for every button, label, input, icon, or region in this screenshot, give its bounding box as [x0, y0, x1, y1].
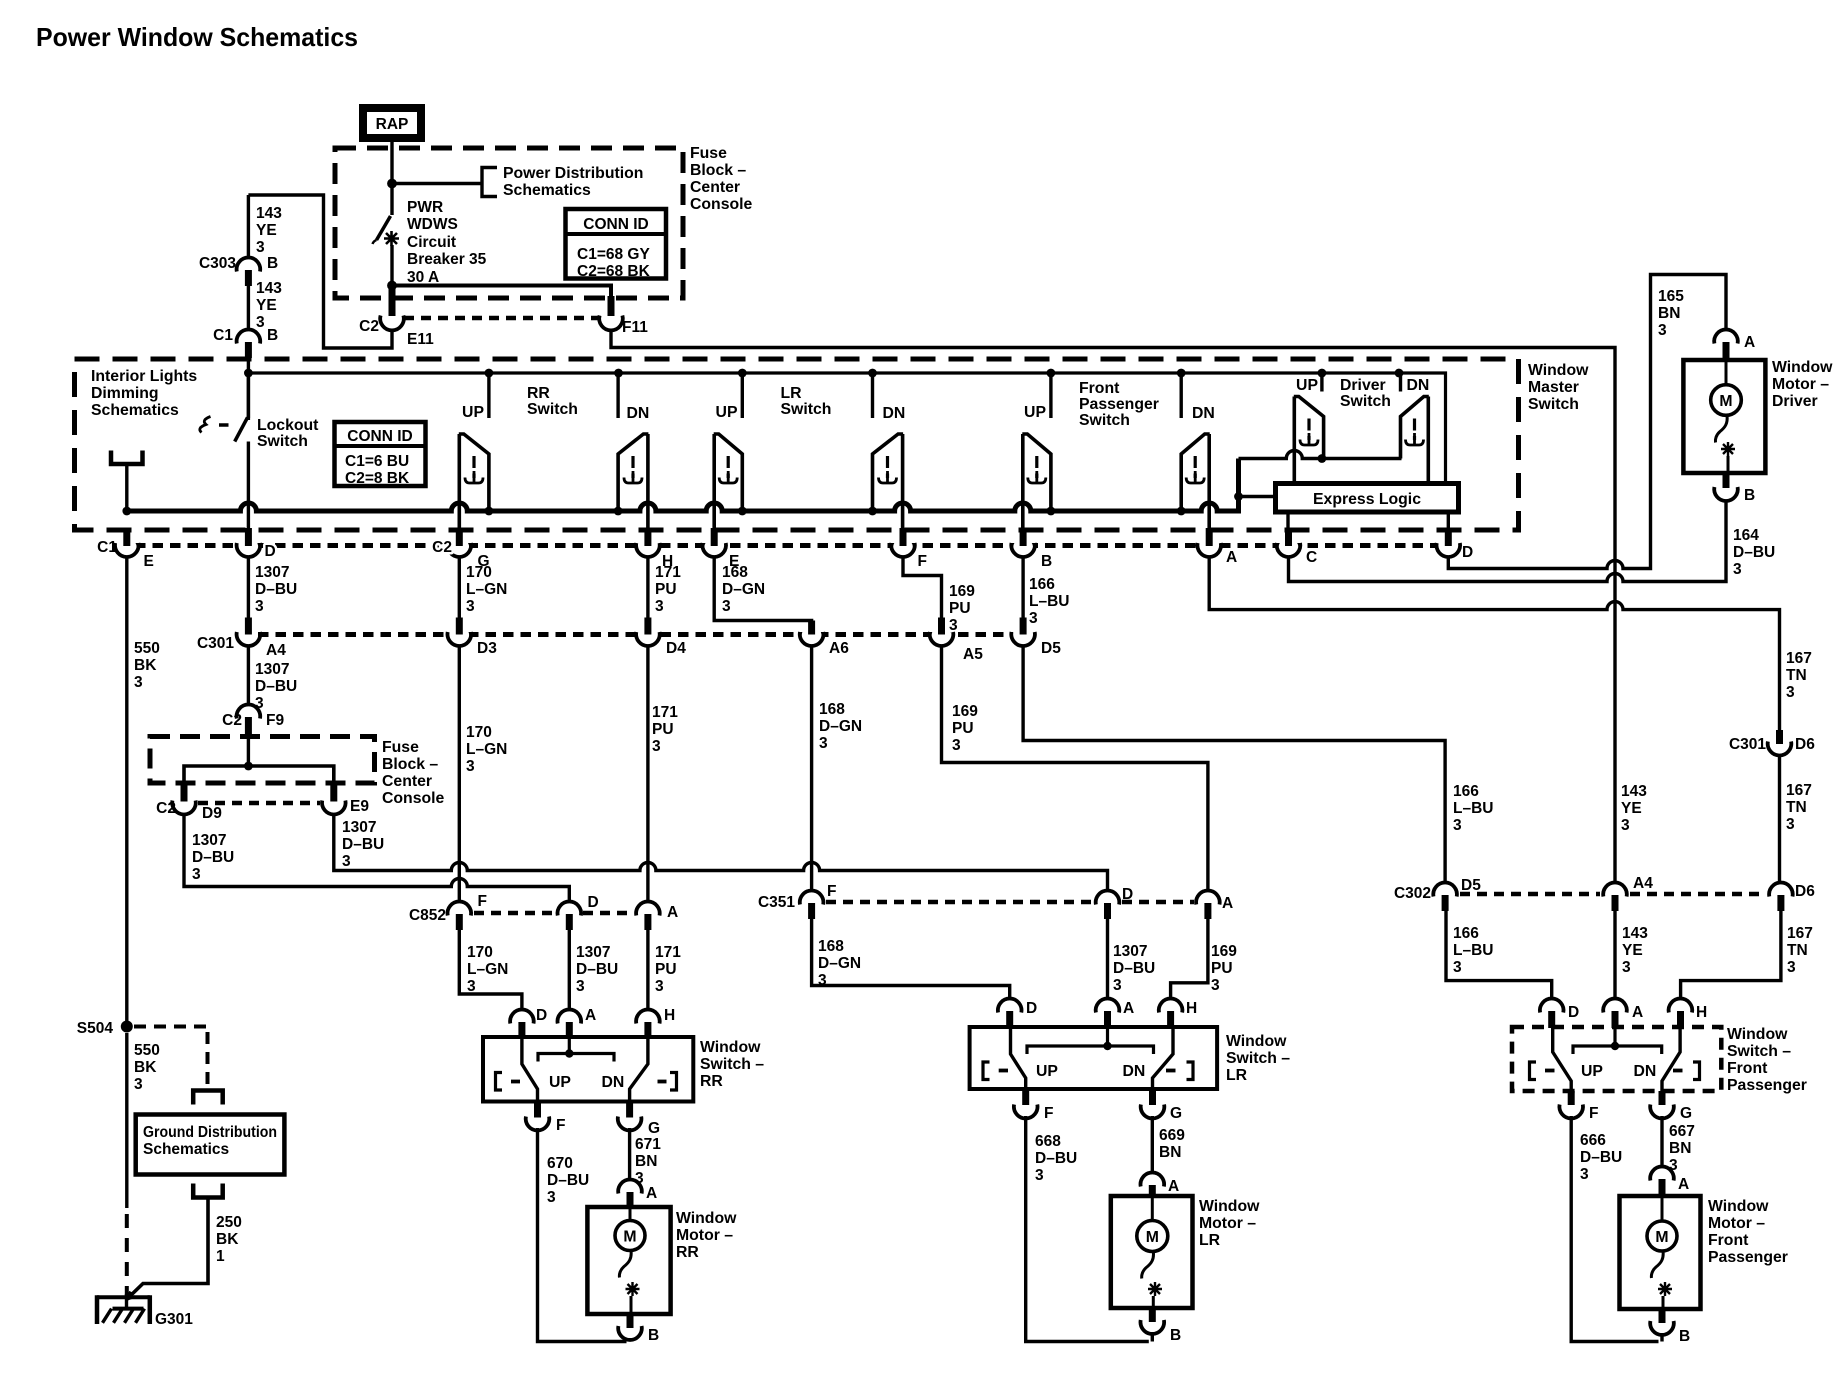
svg-text:PWR: PWR	[407, 199, 443, 216]
svg-text:165: 165	[1658, 288, 1684, 305]
wire junction to F11 drop	[392, 286, 611, 299]
svg-text:Window: Window	[1772, 359, 1833, 376]
connector C302 pin D6	[1769, 883, 1793, 897]
wire master C to driver motor B (164 D-BU)	[1289, 501, 1727, 582]
wire C302 D6 to FP switch H	[1681, 911, 1781, 1000]
fuse block center console (lower) dashed box	[150, 737, 375, 784]
svg-text:167: 167	[1787, 925, 1813, 942]
wire C852 D to RR switch A	[568, 930, 571, 1011]
svg-text:L–BU: L–BU	[1029, 593, 1069, 610]
svg-text:D: D	[265, 543, 276, 560]
wire A5 to C351 A	[942, 646, 1208, 892]
wire master D to driver motor A (165 BN)	[1448, 275, 1726, 569]
motor asterisk (FP)	[1658, 1282, 1672, 1296]
svg-text:166: 166	[1453, 783, 1479, 800]
circuit breaker PWR WDWS blade	[377, 216, 391, 240]
svg-text:BN: BN	[1159, 1144, 1181, 1161]
svg-text:Schematics: Schematics	[91, 402, 179, 419]
svg-text:D5: D5	[1461, 877, 1481, 894]
svg-text:D–BU: D–BU	[255, 581, 297, 598]
lockout switch wire upper	[247, 373, 250, 418]
connector C1 pin B cap	[237, 330, 261, 344]
svg-text:171: 171	[652, 704, 678, 721]
wire F9 into fuse block	[247, 733, 250, 766]
svg-text:Schematics: Schematics	[143, 1141, 229, 1158]
RAP box	[363, 108, 421, 138]
connector C301 pin D3	[456, 618, 463, 635]
fuse block center console (top) dashed box	[335, 148, 683, 298]
wire C852 A to RR switch H	[646, 930, 649, 1011]
svg-text:671: 671	[635, 1136, 661, 1153]
svg-text:Lockout: Lockout	[257, 417, 319, 434]
svg-text:D–BU: D–BU	[1035, 1150, 1077, 1167]
svg-text:DN: DN	[883, 405, 906, 422]
svg-text:DN: DN	[1407, 377, 1430, 394]
svg-text:3: 3	[819, 735, 828, 752]
bracket out of ground distribution box	[193, 1184, 223, 1198]
wire C302 D5 to FP switch D	[1446, 911, 1552, 1000]
svg-text:B: B	[648, 1327, 659, 1344]
svg-text:667: 667	[1669, 1123, 1695, 1140]
connector C301 pin A5	[938, 618, 945, 635]
svg-text:C1: C1	[97, 539, 117, 556]
svg-text:550: 550	[134, 1042, 160, 1059]
driver internal bus with hop	[1239, 451, 1402, 459]
svg-text:3: 3	[1035, 1167, 1044, 1184]
svg-text:A5: A5	[963, 646, 983, 663]
wire E9 to C351 D	[334, 814, 1108, 892]
svg-text:D6: D6	[1795, 883, 1815, 900]
svg-text:D: D	[536, 1007, 547, 1024]
svg-text:169: 169	[1211, 943, 1237, 960]
svg-text:3: 3	[466, 758, 475, 775]
svg-text:G: G	[648, 1120, 660, 1137]
connector pin D (express)	[1445, 528, 1452, 546]
connector C1 pin E	[123, 528, 130, 546]
svg-text:A: A	[1632, 1004, 1643, 1021]
svg-text:C2=8 BK: C2=8 BK	[345, 470, 410, 487]
window motor LR box	[1111, 1196, 1193, 1308]
svg-text:A4: A4	[266, 642, 286, 659]
connector F11 cup	[599, 316, 623, 331]
svg-text:Center: Center	[382, 773, 432, 790]
svg-text:E11: E11	[407, 331, 434, 348]
svg-text:BK: BK	[134, 1059, 157, 1076]
wire RAP down	[390, 138, 393, 215]
connector pin C (express)	[1285, 528, 1292, 546]
svg-text:169: 169	[952, 703, 978, 720]
lockout switch blade	[235, 418, 248, 442]
svg-text:L–GN: L–GN	[466, 741, 507, 758]
svg-text:F: F	[556, 1117, 565, 1134]
svg-text:BN: BN	[635, 1153, 657, 1170]
motor M circle (LR)	[1151, 1196, 1154, 1221]
svg-text:167: 167	[1786, 650, 1812, 667]
connector LR motor pin A	[1141, 1173, 1165, 1187]
svg-text:UP: UP	[1581, 1063, 1603, 1080]
svg-text:F: F	[918, 553, 927, 570]
splice S504	[121, 1021, 133, 1033]
connector pin B (master)	[1020, 528, 1027, 546]
motor brush squiggle (FP)	[1651, 1251, 1663, 1278]
motor M circle (driver)	[1725, 360, 1728, 385]
node dots on top bus	[244, 369, 1403, 378]
svg-text:DN: DN	[627, 405, 650, 422]
dashed connector line C852	[474, 911, 556, 916]
express logic stub to C	[1286, 512, 1289, 530]
svg-text:C: C	[1306, 549, 1317, 566]
svg-text:C1: C1	[213, 327, 233, 344]
connector F11 stub	[608, 296, 615, 316]
svg-text:3: 3	[722, 598, 731, 615]
svg-text:D6: D6	[1795, 736, 1815, 753]
svg-text:D4: D4	[666, 640, 686, 657]
svg-text:Switch: Switch	[1528, 396, 1579, 413]
svg-text:A: A	[1226, 549, 1237, 566]
fuse block internal bus	[184, 766, 334, 784]
wire A4 to F9	[247, 646, 250, 706]
wire C852 F to RR switch D	[459, 930, 522, 1011]
window switch RR box	[483, 1037, 693, 1102]
svg-text:Dimming: Dimming	[91, 385, 159, 402]
svg-text:F: F	[478, 893, 487, 910]
wire breaker to junction	[390, 245, 393, 286]
wire D9 to C852 D	[184, 814, 569, 903]
connector RR switch pin F	[534, 1102, 541, 1118]
svg-text:DN: DN	[1123, 1063, 1146, 1080]
wire A6 to C351 F	[810, 646, 813, 892]
express logic box	[1276, 484, 1459, 513]
svg-text:B: B	[1744, 487, 1755, 504]
svg-text:670: 670	[547, 1155, 573, 1172]
connector FP motor pin B	[1659, 1309, 1666, 1323]
svg-text:BK: BK	[216, 1231, 239, 1248]
svg-text:166: 166	[1453, 925, 1479, 942]
RR switch UP stub	[487, 373, 490, 418]
svg-text:170: 170	[467, 944, 493, 961]
svg-text:Window: Window	[1708, 1198, 1769, 1215]
svg-text:S504: S504	[77, 1020, 114, 1037]
connector B (driver motor) cup	[1723, 473, 1730, 488]
connector pin A (master)	[1206, 528, 1213, 546]
svg-text:Window: Window	[676, 1210, 737, 1227]
wire C303 to C1	[247, 286, 250, 330]
svg-text:D–GN: D–GN	[819, 718, 862, 735]
LR DN blade	[1153, 1028, 1174, 1089]
svg-text:30 A: 30 A	[407, 269, 439, 286]
connector C302 pin A4	[1603, 883, 1627, 897]
LR switch DN contact flag	[873, 434, 904, 530]
wire C351 A to LR switch H	[1171, 919, 1208, 1000]
connector C301 pin D4	[644, 618, 651, 635]
top feed bus	[248, 373, 1445, 484]
FP DN blade	[1662, 1028, 1680, 1091]
svg-text:M: M	[623, 1229, 636, 1246]
svg-text:3: 3	[1621, 817, 1630, 834]
CONN ID box (fuse block)	[566, 209, 667, 279]
connector C301 pin A6	[808, 621, 815, 635]
wire H to C301 D4	[646, 557, 649, 618]
svg-text:Window: Window	[700, 1039, 761, 1056]
svg-text:Schematics: Schematics	[503, 182, 591, 199]
svg-text:YE: YE	[256, 222, 277, 239]
svg-text:D3: D3	[477, 640, 497, 657]
svg-text:F: F	[827, 883, 836, 900]
svg-text:1307: 1307	[576, 944, 610, 961]
LR switch DN stub	[871, 373, 874, 418]
dashed connector line C302	[1460, 892, 1600, 897]
connector LR switch pin F	[1022, 1089, 1029, 1105]
express logic stub to D	[1447, 512, 1450, 530]
svg-text:3: 3	[652, 738, 661, 755]
svg-text:D–BU: D–BU	[192, 849, 234, 866]
svg-text:3: 3	[547, 1189, 556, 1206]
front passenger DN contact flag	[1181, 434, 1210, 530]
svg-text:3: 3	[1580, 1166, 1589, 1183]
connector C852 pin F	[448, 902, 472, 916]
svg-text:Switch: Switch	[781, 401, 832, 418]
svg-text:E9: E9	[350, 798, 369, 815]
svg-text:L–BU: L–BU	[1453, 800, 1493, 817]
motor brush squiggle (LR)	[1142, 1252, 1154, 1279]
svg-text:Front: Front	[1079, 380, 1120, 397]
connector LR switch pin H	[1159, 999, 1183, 1013]
svg-text:A: A	[1744, 334, 1755, 351]
svg-text:PU: PU	[1211, 960, 1233, 977]
connector C301 pin D6	[1776, 730, 1783, 744]
wire RR F to motor B	[538, 1128, 627, 1342]
LR switch UP stub	[741, 373, 744, 418]
svg-text:C2: C2	[156, 800, 176, 817]
dashed wire 550 BK to ground	[125, 1033, 128, 1208]
svg-text:C302: C302	[1394, 885, 1431, 902]
node junction at power distribution tap	[388, 179, 397, 188]
driver switch DN stub	[1399, 373, 1402, 392]
svg-text:1307: 1307	[255, 564, 289, 581]
svg-text:Switch: Switch	[527, 401, 578, 418]
svg-text:170: 170	[466, 564, 492, 581]
svg-text:D9: D9	[202, 805, 222, 822]
svg-text:UP: UP	[1036, 1063, 1058, 1080]
FP contact brackets	[1530, 1062, 1537, 1080]
connector C351 pin A	[1196, 891, 1220, 905]
svg-text:B: B	[267, 255, 278, 272]
svg-text:Center: Center	[690, 179, 740, 196]
svg-text:D: D	[588, 894, 599, 911]
connector FP switch pin G	[1659, 1091, 1666, 1105]
svg-text:F: F	[1044, 1105, 1053, 1122]
connector C301 pin A4	[245, 618, 252, 635]
svg-text:B: B	[1170, 1327, 1181, 1344]
svg-text:1307: 1307	[192, 832, 226, 849]
wire C351 D to LR switch A	[1106, 919, 1109, 1000]
RR UP blade	[522, 1038, 538, 1102]
svg-text:3: 3	[655, 978, 664, 995]
connector LR switch pin D	[998, 999, 1022, 1013]
svg-text:H: H	[1696, 1004, 1707, 1021]
svg-text:D–BU: D–BU	[547, 1172, 589, 1189]
svg-text:BK: BK	[134, 657, 157, 674]
wire F11 down then right (to window motors side)	[611, 329, 1615, 882]
svg-text:1307: 1307	[342, 819, 376, 836]
svg-text:166: 166	[1029, 576, 1055, 593]
svg-text:Driver: Driver	[1340, 377, 1386, 394]
window motor RR box	[587, 1207, 670, 1314]
wire B to C301 D5	[1021, 557, 1024, 618]
svg-text:D: D	[1462, 544, 1473, 561]
svg-text:3: 3	[134, 1076, 143, 1093]
wire C302 A4 to FP switch A	[1613, 911, 1616, 1000]
svg-text:168: 168	[819, 701, 845, 718]
C301 connector dashed row	[258, 632, 1013, 637]
svg-text:F: F	[1589, 1105, 1598, 1122]
wire C351 F to LR switch D	[812, 919, 1010, 1000]
svg-text:PU: PU	[652, 721, 674, 738]
wire C303 feed	[247, 195, 250, 258]
svg-text:3: 3	[1622, 959, 1631, 976]
svg-text:DN: DN	[1634, 1063, 1657, 1080]
wire D4 to C852 A	[646, 646, 649, 903]
motor M circle (FP)	[1661, 1196, 1664, 1221]
connector FP switch pin H	[1669, 999, 1693, 1013]
svg-text:A: A	[1168, 1178, 1179, 1195]
connector C351 pin F	[800, 891, 824, 905]
svg-text:A6: A6	[829, 640, 849, 657]
svg-text:A4: A4	[1633, 875, 1653, 892]
connector C2 pin G	[456, 528, 463, 546]
svg-text:3: 3	[1029, 610, 1038, 627]
svg-text:Switch –: Switch –	[1727, 1043, 1791, 1060]
svg-text:LR: LR	[781, 385, 803, 402]
svg-text:Console: Console	[690, 196, 753, 213]
RR switch DN contact flag	[618, 434, 648, 530]
connector C2 E11 stub	[389, 286, 396, 316]
driver switch DN contact flag	[1401, 397, 1429, 484]
window switch front passenger dashed box	[1512, 1027, 1721, 1091]
svg-text:YE: YE	[1622, 942, 1643, 959]
svg-text:668: 668	[1035, 1133, 1061, 1150]
svg-text:D–BU: D–BU	[255, 678, 297, 695]
connector C852 pin D	[558, 902, 582, 916]
connector C2 pin F9	[237, 705, 261, 719]
svg-text:Passenger: Passenger	[1079, 396, 1159, 413]
svg-text:170: 170	[466, 724, 492, 741]
svg-text:3: 3	[1787, 959, 1796, 976]
svg-text:Console: Console	[382, 790, 445, 807]
svg-text:A: A	[585, 1007, 596, 1024]
window motor driver box	[1683, 360, 1765, 473]
wire LR F to motor B	[1026, 1116, 1149, 1342]
wire lockout to connector D	[247, 442, 250, 531]
svg-text:Passenger: Passenger	[1708, 1249, 1788, 1266]
window master switch dashed box	[75, 359, 1519, 530]
CONN ID box (master switch)	[335, 422, 426, 486]
svg-text:669: 669	[1159, 1127, 1185, 1144]
dashed connector line D9 to E9	[198, 801, 320, 806]
svg-text:3: 3	[192, 866, 201, 883]
svg-text:C301: C301	[197, 635, 234, 652]
connector pin H (master)	[644, 528, 651, 546]
wire to power distribution bracket	[392, 182, 482, 185]
svg-text:M: M	[1146, 1229, 1159, 1246]
svg-text:3: 3	[1211, 977, 1220, 994]
svg-text:LR: LR	[1226, 1067, 1248, 1084]
dashed branch S504 to ground distribution	[134, 1025, 208, 1029]
svg-text:A: A	[667, 904, 678, 921]
connector C301 pin D5	[1020, 618, 1027, 635]
svg-text:LR: LR	[1199, 1232, 1221, 1249]
wire C1 E to splice S504	[125, 557, 128, 1027]
connector RR switch pin D	[510, 1010, 534, 1024]
connector C2 pin D9	[181, 784, 188, 802]
svg-text:CONN ID: CONN ID	[347, 428, 412, 445]
wire 250 BK to ground	[126, 1198, 208, 1301]
connector C852 pin A	[636, 902, 660, 916]
wire D3 to C852 F	[458, 646, 461, 903]
svg-text:G: G	[1170, 1105, 1182, 1122]
svg-text:Passenger: Passenger	[1727, 1077, 1807, 1094]
svg-text:YE: YE	[1621, 800, 1642, 817]
node dots on lower bus	[122, 507, 1185, 516]
wire FP G to motor A	[1660, 1116, 1663, 1167]
svg-text:PU: PU	[655, 581, 677, 598]
connector C2 E11 cup	[380, 316, 404, 331]
svg-text:3: 3	[1453, 817, 1462, 834]
svg-text:Window: Window	[1727, 1026, 1788, 1043]
svg-text:3: 3	[256, 314, 265, 331]
svg-text:Motor –: Motor –	[1708, 1215, 1765, 1232]
connector RR switch pin H	[636, 1010, 660, 1024]
svg-text:D–BU: D–BU	[576, 961, 618, 978]
svg-text:143: 143	[1621, 783, 1647, 800]
connector LR motor pin B	[1149, 1308, 1156, 1322]
svg-text:L–GN: L–GN	[467, 961, 508, 978]
wire D5 to C302 D5	[1023, 646, 1445, 884]
svg-text:UP: UP	[1296, 377, 1318, 394]
svg-text:L–BU: L–BU	[1453, 942, 1493, 959]
svg-text:3: 3	[1658, 322, 1667, 339]
FP UP blade	[1553, 1028, 1572, 1091]
RR contact brackets	[496, 1073, 503, 1091]
svg-text:Power Window Schematics: Power Window Schematics	[36, 22, 358, 52]
svg-text:D–BU: D–BU	[342, 836, 384, 853]
svg-text:Window: Window	[1199, 1198, 1260, 1215]
svg-text:C2: C2	[432, 539, 452, 556]
svg-text:3: 3	[1786, 684, 1795, 701]
circuit breaker asterisk	[384, 231, 399, 246]
svg-text:167: 167	[1786, 782, 1812, 799]
dashed connector line E11 to F11	[404, 316, 598, 321]
svg-text:3: 3	[255, 598, 264, 615]
connector FP switch pin A	[1603, 999, 1627, 1013]
connector FP switch pin D	[1540, 999, 1564, 1013]
ground distribution schematics box	[136, 1115, 285, 1175]
RR switch DN stub	[616, 373, 619, 418]
wire G to C301 D3	[458, 557, 461, 618]
svg-text:3: 3	[134, 674, 143, 691]
svg-text:TN: TN	[1786, 799, 1807, 816]
LR UP blade	[1011, 1028, 1026, 1089]
svg-text:550: 550	[134, 640, 160, 657]
svg-text:WDWS: WDWS	[407, 216, 458, 233]
svg-text:D: D	[1568, 1004, 1579, 1021]
window motor front passenger box	[1620, 1196, 1701, 1309]
svg-text:3: 3	[342, 853, 351, 870]
svg-text:164: 164	[1733, 527, 1759, 544]
svg-text:C1=6 BU: C1=6 BU	[345, 453, 409, 470]
motor asterisk (LR)	[1148, 1282, 1162, 1296]
connector A (driver motor) cap	[1714, 330, 1738, 344]
